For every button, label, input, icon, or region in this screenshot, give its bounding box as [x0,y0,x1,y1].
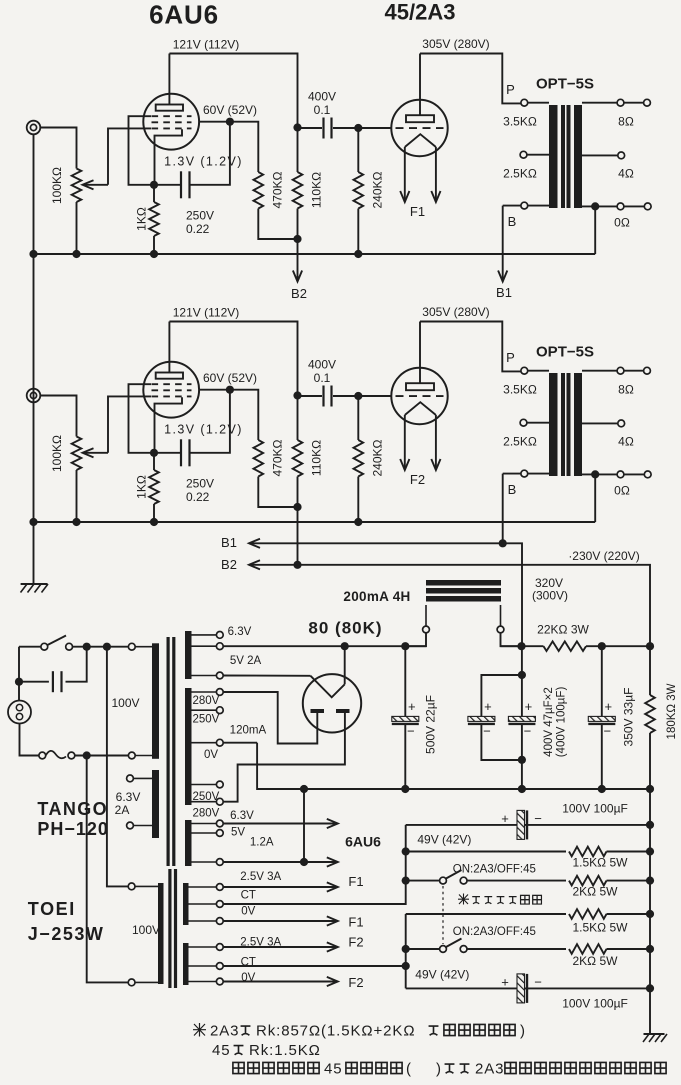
node cathode junction ch1 [150,181,158,189]
junction 49V line upper [402,847,410,855]
svg-text:1.5KΩ 5W: 1.5KΩ 5W [573,856,629,870]
terminal 100V top PH-120 [128,643,135,650]
electrolytic 47uF right C3 [508,699,535,739]
wire grid to 240K ch2 [357,396,359,440]
terminal P OPT T2 [521,367,528,374]
stub 6.3V2A b [133,825,152,827]
wire 6AU6 V1 plate lead [168,54,170,105]
terminal 5V a / B+ takeoff [216,643,223,650]
wire 180K to ground rail [649,733,651,789]
wire cathode junction to cap ch1 [154,184,180,186]
wire 6AU6 V1 g3 to cathode [129,116,155,185]
svg-text:Rk:1.5KΩ: Rk:1.5KΩ [249,1042,321,1059]
svg-text:F2: F2 [348,935,363,950]
wire switch line upper left [406,880,440,882]
svg-text:400V: 400V [308,90,336,104]
svg-text:2A3: 2A3 [210,1022,239,1039]
wire 33uF positive [601,646,603,716]
terminal CT F2 [216,963,223,970]
svg-text:+: + [501,811,509,826]
wire B1 drop ch1 [502,206,504,282]
terminal TOEI 100V bottom [128,979,135,986]
node cathode junction ch2 [150,449,158,457]
wire mains neutral post-fuse [75,755,129,757]
arrow B2 to amp [249,560,260,569]
svg-text:1.3V (1.2V): 1.3V (1.2V) [164,155,243,169]
arrow F1 hot [327,882,338,891]
terminal bias switch lower b [460,946,467,953]
switch S1 lever [48,636,67,646]
wire filament leg B V4 [435,415,437,470]
wire coupling cap to grid ch2 [333,395,358,397]
terminal 6.3V2A a [127,775,134,782]
45 V3 grid (dashed) [396,127,444,129]
output transformer OPT-5S T1 windings/core [549,105,582,208]
svg-text:·230V (220V): ·230V (220V) [568,549,639,563]
svg-text:1.3V (1.2V): 1.3V (1.2V) [164,423,243,437]
terminal 6.3V unused [216,632,223,639]
junction ground 1.5K lower [646,910,654,918]
arrow B1 ch1 [498,271,507,282]
6AU6 V2 plate [156,373,183,379]
terminal P OPT T1 [521,99,528,106]
wire 1.5K line lower right [607,913,651,915]
wire cathode bus lower [405,914,407,988]
junction rail/240K ch1 [354,250,362,258]
terminal 0V F2 [216,978,223,985]
junction rail/jack ch2 [29,518,37,526]
wire 2K to ground lower [607,948,651,950]
terminal 4ohm T2 [618,420,625,427]
terminal 8ohm b T2 [644,367,651,374]
kanji inside [445,1064,470,1073]
wire OPT 4ohm tap ch2 [582,422,618,424]
kanji chassis voltage note [505,1062,666,1073]
stub 280V bottom [192,801,217,803]
rectifier 80 plate left [311,709,325,713]
svg-text:5V: 5V [231,827,245,839]
junction ground cap lower [646,984,654,992]
45 V4 filament [405,402,436,415]
junction B1 takeoff [517,642,525,650]
terminal 0V center tap [216,739,223,746]
wire spark cap left [19,681,49,683]
junction TOEI hot feed [103,643,111,651]
terminal 0V F1 [216,918,223,925]
wire bypass cap line lower [406,987,650,989]
pot wiper arrow ch1 [83,180,94,189]
wire mains left vertical [18,647,20,701]
svg-text:45: 45 [324,1060,343,1077]
wire B1 line [249,543,522,646]
svg-text:2.5KΩ: 2.5KΩ [503,167,537,181]
stub 250V bottom unused [192,784,217,786]
wire left plate to 280V top [223,692,317,744]
transformer PH-120 T3 primary winding [152,643,159,759]
svg-text:F2: F2 [410,472,425,487]
wire F2 filament hot [223,946,337,948]
svg-text:0.22: 0.22 [186,490,210,504]
svg-text:22KΩ 3W: 22KΩ 3W [537,623,589,637]
svg-text:): ) [520,1022,525,1039]
stub CT F2 [189,965,217,967]
svg-text:TANGO: TANGO [37,799,108,819]
fuse/breaker squiggle [46,751,66,758]
svg-text:B1: B1 [496,285,512,300]
wire 110K to B2 node ch2 [297,477,299,508]
junction CT F2 [402,962,410,970]
svg-text:−: − [604,723,612,738]
wire B1 feed ch2 [502,474,504,544]
wire OPT B tap ch2 [528,473,549,475]
wire 6AU6 V2 g3 to cathode [129,384,155,453]
junction ground 2K lower [646,945,654,953]
rectifier 80 filament [311,676,345,698]
stub 250V top unused [192,709,217,711]
svg-text:49V (42V): 49V (42V) [415,968,469,982]
stub 280V top [192,691,217,693]
wire OPT P tap ch1 [528,102,549,104]
transformer TOEI T4 primary winding [158,883,164,984]
svg-text:180KΩ 3W: 180KΩ 3W [666,683,678,739]
wire filament leg A V3 [404,147,406,202]
terminal switch S1 a [41,643,48,650]
svg-text:B1: B1 [221,535,237,550]
stub 0V F2 [189,981,217,983]
note Rk values line 1 (japanese) [193,1023,206,1037]
svg-text:400V: 400V [308,358,336,372]
junction switch line upper [402,877,410,885]
wire ground bus right [649,789,651,1034]
wire heater return line [223,861,337,863]
svg-text:F1: F1 [348,915,363,930]
capacitor 0.1uF 400V coupling ch2 [324,386,332,407]
terminal 100V bottom PH-120 [128,752,135,759]
terminal B OPT T2 [521,470,528,477]
wire OPT 0ohm tap ch2 [582,473,644,475]
arrow F2 hot [327,942,338,951]
bias switch upper lever [446,870,462,879]
svg-text:470KΩ: 470KΩ [271,171,285,208]
capacitor spark suppressor [53,671,62,692]
wire 305V plate to OPT P ch2 [420,322,521,372]
resistor 1.5K 5W upper [569,847,607,857]
wire 240K to ground rail ch1 [357,209,359,255]
stub 2.5V F1 hot [189,886,217,888]
node 0ohm ground tap T1 [591,202,599,210]
choke 4H 200mA L1 [426,580,501,586]
wire switch line lower left [406,948,440,950]
wire 1K to ground rail ch2 [153,504,155,522]
svg-text:500V 22µF: 500V 22µF [424,695,438,754]
wire B+ rail right pre 22K [501,645,544,647]
bias switch lower lever [446,939,462,948]
svg-text:6AU6: 6AU6 [149,0,219,30]
wire right plate to 280V bottom [223,713,345,802]
wire 305V plate to OPT P ch1 [420,54,521,104]
wire 240K to ground rail ch2 [357,477,359,523]
svg-text:+: + [408,699,416,714]
45 V4 grid (dashed) [396,395,444,397]
wire TOEI primary hot [107,647,128,887]
svg-text:305V (280V): 305V (280V) [422,37,489,51]
6AU6 V2 grids (g3,g2,g1 dashed) [152,383,192,385]
rectifier tube 80 V5 envelope [303,674,361,732]
wire 110K to B2 node ch1 [297,209,299,240]
wire cathode to 1K ch1 [153,185,155,202]
wire coupling cap to grid ch1 [333,127,358,129]
svg-text:F1: F1 [348,874,363,889]
wire cathode to 1K ch2 [153,453,155,470]
svg-text:ON:2A3/OFF:45: ON:2A3/OFF:45 [453,864,536,876]
junction ground 1.5K upper [646,847,654,855]
wire 6AU6 V2 plate lead [168,322,170,373]
japanese katakana baiasu [472,897,516,904]
vacuum tube 6AU6 V2 envelope [143,362,199,418]
svg-text:B2: B2 [291,286,307,301]
terminal 0ohm a T2 [617,471,624,478]
svg-text:110KΩ: 110KΩ [310,440,324,476]
AC plug P1 [8,701,31,724]
junction ground 2K upper [646,877,654,885]
svg-text:100V: 100V [132,923,160,937]
arrow F2 return [327,977,338,986]
japanese kanji switching [521,895,542,904]
resistor 1.5K 5W lower [569,909,607,919]
svg-text:(400V 100µF): (400V 100µF) [556,687,568,758]
node plate/coupling ch2 [293,391,301,399]
svg-text:0V: 0V [204,749,218,761]
wire choke body left lead [425,605,427,626]
node plate/coupling ch1 [293,123,301,131]
45 V3 filament [405,134,436,147]
arrow B2 ch1 [293,271,302,282]
ground rail ch1 [34,253,596,255]
6AU6 V1 cathode [155,129,183,185]
TOEI secondary 2.5V winding F1 [183,883,189,925]
PH-120 secondary 6.3V/5V 1.2A winding [185,820,192,866]
resistor 110K plate load ch1 [293,172,303,209]
wire TOEI primary neutral [87,756,129,983]
wire 6AU6 V2 screen out [199,389,230,391]
input jack J1 [27,121,41,135]
kana no 3 [234,1046,244,1055]
svg-text:−: − [534,811,542,826]
terminal 2.5K OPT T2 [520,419,527,426]
capacitor 0.22uF 250V ch2 [181,439,190,466]
wire 0ohm tap to ground rail ch2 [594,474,596,522]
resistor 240K grid leak ch1 [354,172,364,209]
stub 6.3V2A a [133,777,152,779]
TOEI secondary 2.5V winding F2 [183,943,189,985]
svg-text:2.5KΩ: 2.5KΩ [503,435,537,449]
svg-text:1.2A: 1.2A [250,837,274,849]
wire plate node to 110K ch2 [297,396,299,441]
svg-text:F1: F1 [410,204,425,219]
svg-text:400V 47µF×2: 400V 47µF×2 [543,687,555,757]
wire 22uF positive lead [404,646,406,716]
terminal CT F1 [216,901,223,908]
wire heater ground drop [303,789,305,862]
wire OPT P tap ch2 [528,370,549,372]
svg-text:2KΩ 5W: 2KΩ 5W [573,885,619,899]
svg-text:P: P [506,350,515,365]
junction 22uF top [401,642,409,650]
terminal 280V top [216,689,223,696]
stub TOEI bottom [135,981,158,983]
svg-text:100V: 100V [111,696,139,710]
svg-text:100V 100µF: 100V 100µF [562,997,628,1011]
terminal fuse a [39,752,46,759]
wire jack to volume pot ch2 [40,396,76,437]
svg-text:280V: 280V [193,695,220,707]
wire 0V center tap to ground rail [257,743,650,789]
wire 45 V3 plate lead [419,54,421,116]
junction B2 takeoff [646,642,654,650]
resistor 110K plate load ch2 [293,440,303,477]
svg-text:B: B [508,214,517,229]
svg-text:P: P [506,82,515,97]
terminal 6.3V heater [216,820,223,827]
wire filament leg A V4 [404,415,406,470]
terminal B OPT T1 [521,202,528,209]
wire screen to bypass cap ch2 [190,390,230,453]
vacuum tube 45/2A3 V4 envelope [391,368,447,424]
kanji parallel resistance value [444,1024,515,1035]
terminal 6.3V2A b [127,822,134,829]
electrolytic 47uF left C2 [468,699,495,739]
PH-120 secondary HV winding [185,688,192,805]
wire 1.5K line lower left [406,913,566,915]
wire 22uF negative lead [404,724,406,789]
svg-text:1KΩ: 1KΩ [135,475,149,499]
kanji when used [346,1062,402,1073]
junction rail/jack ch1 [29,250,37,258]
resistor 470K screen ch2 [254,440,264,477]
wire filament to 5V winding [223,675,310,677]
terminal fuse b [68,752,75,759]
stub 5V b [192,675,217,677]
wire pot to ground rail ch1 [76,202,78,254]
wire plate node to 110K ch1 [297,128,299,173]
resistor 180K 3W bleeder [645,695,655,733]
wire 2K to ground upper [607,880,651,882]
vacuum tube 6AU6 V1 envelope [143,94,199,150]
svg-text:240KΩ: 240KΩ [371,439,385,476]
wire input ground bus [33,134,35,584]
terminal 0ohm a T1 [617,203,624,210]
svg-text:1KΩ: 1KΩ [135,207,149,231]
junction 47uF ground [518,785,526,793]
svg-text:(300V): (300V) [532,589,568,603]
wire B2 node to 180K [649,646,651,695]
wire B+ rail right post 22K [586,645,650,647]
terminal 250V top unused [216,707,223,714]
svg-text:121V (112V): 121V (112V) [173,38,240,52]
wire OPT B out ch1 [503,205,521,207]
wire switch to 2K upper [467,880,566,882]
resistor 1K cathode ch2 [149,470,159,504]
terminal 280V bottom [216,798,223,805]
terminal bias switch lower a [440,946,447,953]
output transformer OPT-5S T2 windings/core [549,373,582,476]
wire 47uF left negative [481,724,522,760]
wire 0ohm tap to ground rail ch1 [594,206,596,254]
svg-text:0.1: 0.1 [314,103,331,117]
capacitor 0.22uF 250V ch1 [181,171,190,198]
terminal 5V unused [216,830,223,837]
svg-text:305V (280V): 305V (280V) [422,305,489,319]
wire bypass cap line upper [406,824,650,826]
wire B2 drop ch1 [297,239,299,282]
stub 5V a / B+ takeoff [192,645,217,647]
svg-text:250V: 250V [193,713,220,725]
svg-text:OPT−5S: OPT−5S [536,343,594,360]
wire CT F2 to bias cell [223,965,406,967]
stub 0V center tap [192,742,217,744]
filament arrow A F2 [400,459,409,470]
junction heater ground [300,858,308,866]
svg-text:5V 2A: 5V 2A [230,655,262,667]
kanji voltages prefix [233,1062,319,1073]
junction B1 line ch2 [499,539,507,547]
wire 121V plate supply ch1 [169,54,297,128]
wire mains hot pre-switch [19,646,41,648]
arrow B1 to amp [249,539,260,548]
wire pot wiper ch1 [84,184,108,186]
svg-text:+: + [605,699,613,714]
junction rail/pot ch2 [72,518,80,526]
junction 47uF pair top [518,671,526,679]
wire F1 filament hot [223,886,337,888]
svg-text:0Ω: 0Ω [614,216,630,230]
svg-text:8Ω: 8Ω [618,383,634,397]
stub 100V top [135,646,152,648]
pot wiper arrow ch2 [83,448,94,457]
svg-text:3.5KΩ: 3.5KΩ [503,383,537,397]
wire switch to 2K lower [467,948,566,950]
wire filament leg B V3 [435,147,437,202]
wire grid into 45 tube ch1 [358,127,391,129]
node 60V screen ch1 [226,118,234,126]
wire to coupling cap ch2 [298,395,323,397]
svg-text:6AU6: 6AU6 [345,834,381,850]
wire OPT B out ch2 [503,473,521,475]
resistor 1K cathode ch1 [149,202,159,236]
node 45 grid ch2 [354,392,362,400]
junction 33uF ground [598,785,606,793]
svg-text:−: − [534,974,542,989]
wire 1K to ground rail ch1 [153,236,155,254]
svg-text:8Ω: 8Ω [618,115,634,129]
filament arrow B F2 [431,459,440,470]
kana no 2 [429,1026,439,1035]
arrow heater to 6AU6 b [327,857,338,866]
input jack J2 [27,389,41,403]
svg-text:350V 33µF: 350V 33µF [622,688,636,747]
transformer TOEI core [168,869,171,988]
svg-text:120mA: 120mA [230,725,267,737]
wire 470K to B2 node ch2 [258,477,297,508]
wire mains neutral [20,724,39,756]
ground rail ch2 [34,521,596,523]
wire 470K to B2 node ch1 [258,209,297,240]
junction rail/1K ch1 [150,250,158,258]
resistor 240K grid leak ch2 [354,440,364,477]
wire B2 line [249,565,650,646]
transformer PH-120 6.3V 2A winding (primary side) [152,770,159,838]
wire wiper to grid ch2 [108,396,151,452]
